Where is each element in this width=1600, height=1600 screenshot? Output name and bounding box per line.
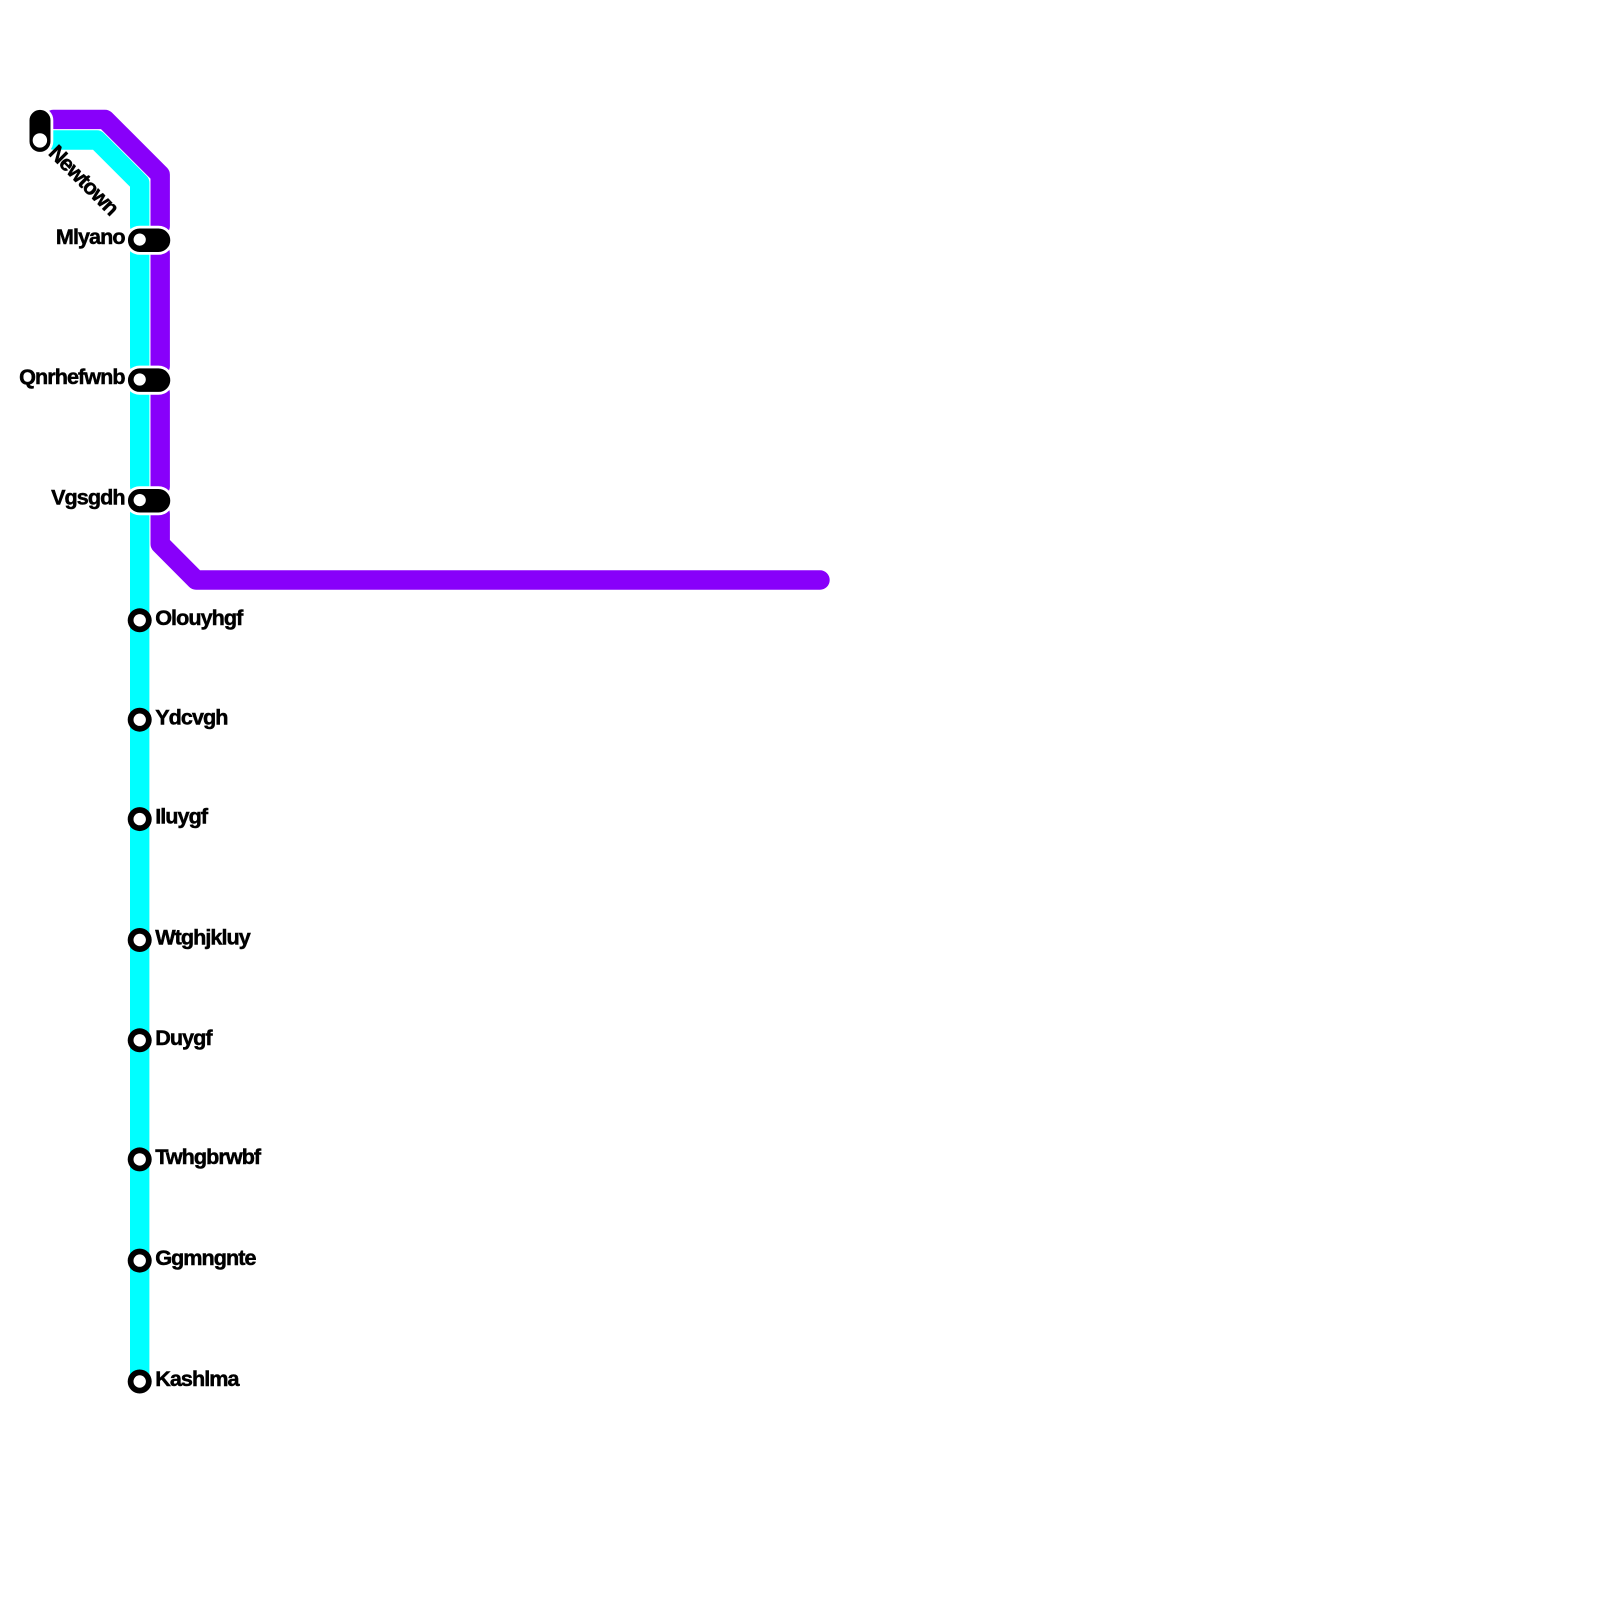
svg-text:Ydcvgh: Ydcvgh [155,704,227,729]
cyan line segment Mlyano-Qnrhefwnb [130,253,149,366]
svg-text:Ggmngnte: Ggmngnte [155,1245,256,1270]
svg-text:Vgsgdh: Vgsgdh [51,485,124,510]
cyan line segment Vgsgdh-Olouyhgf [130,514,149,621]
cyan line segment Twhgbrwbf-Ggmngnte [130,1159,149,1260]
station marker Iluygf [128,807,152,831]
station marker Olouyhgf [128,608,152,632]
station marker Ggmngnte [128,1249,152,1273]
cyan line segment Olouyhgf-Ydcvgh [130,620,149,719]
svg-text:Duygf: Duygf [155,1025,213,1050]
station marker Kashlma [128,1370,152,1394]
cyan line segment Qnrhefwnb-Vgsgdh [130,393,149,487]
purple line segment Mlyano-Qnrhefwnb [150,253,169,366]
cyan line segment Ggmngnte-Kashlma [130,1261,149,1382]
svg-text:Mlyano: Mlyano [56,224,125,249]
interchange marker Vgsgdh [127,488,172,514]
station marker Duygf [128,1028,152,1052]
svg-text:Olouyhgf: Olouyhgf [155,605,244,630]
cyan line segment Wtghjkluy-Duygf [130,940,149,1040]
svg-text:Twhgbrwbf: Twhgbrwbf [155,1144,262,1169]
interchange marker Mlyano [127,227,172,253]
interchange marker Qnrhefwnb [127,367,172,393]
station marker Ydcvgh [128,708,152,732]
purple line segment Qnrhefwnb-Vgsgdh [150,393,169,487]
svg-text:Wtghjkluy: Wtghjkluy [155,925,251,950]
purple line segment Newtown-Mlyano [54,119,161,226]
svg-text:Kashlma: Kashlma [155,1366,240,1391]
cyan line segment Iluygf-Wtghjkluy [130,819,149,940]
station marker Wtghjkluy [128,928,152,952]
station marker Twhgbrwbf [128,1147,152,1171]
interchange marker Newtown [28,109,52,154]
cyan line segment Newtown-Mlyano [54,140,140,226]
svg-text:Qnrhefwnb: Qnrhefwnb [19,364,125,389]
cyan line segment Ydcvgh-Iluygf [130,720,149,819]
cyan line segment Duygf-Twhgbrwbf [130,1040,149,1159]
purple line segment Vgsgdh-east-terminus [160,514,820,580]
svg-text:Iluygf: Iluygf [155,804,209,829]
